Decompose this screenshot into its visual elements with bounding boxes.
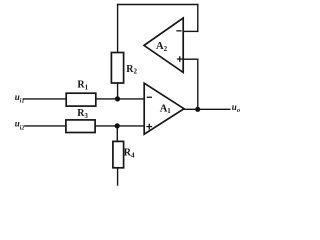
svg-text:i2: i2 (20, 124, 25, 131)
node A junction dot (u_i1 line) (115, 96, 120, 101)
op-amp A2 plus sign (177, 56, 183, 62)
wire R3 to A1 non-inverting input (95, 125, 144, 127)
wire A2 non-inverting input stub (183, 58, 198, 60)
wire A2 inverting input stub (183, 30, 198, 32)
resistor R1 body (66, 93, 96, 106)
resistor R3 body (66, 120, 95, 133)
wire left vertical from top corner down to R2 (117, 5, 119, 53)
op-amp A1 plus sign (146, 124, 152, 130)
node B junction dot (u_i2 line) (115, 123, 120, 128)
resistor R2 body (111, 53, 123, 84)
wire stub below R4 (117, 168, 119, 185)
op-amp A2 triangle (output points left) (144, 18, 183, 72)
wire R2 bottom lead to node A (117, 83, 119, 99)
wire node B down to R4 (116, 126, 118, 141)
svg-text:R1: R1 (77, 80, 88, 92)
wire A1 output to u_o (184, 108, 230, 110)
wire R1 to A1 inverting input (96, 98, 144, 100)
svg-text:R4: R4 (124, 148, 135, 160)
op-amp A2 minus sign (176, 30, 181, 31)
wire input u_i2 lead (25, 125, 66, 127)
node output junction dot (195, 107, 200, 112)
svg-text:A1: A1 (160, 103, 172, 115)
op-amp A1 minus sign (147, 97, 152, 98)
svg-text:i1: i1 (20, 97, 25, 104)
wire input u_i1 lead (24, 98, 67, 100)
svg-text:R2: R2 (126, 64, 137, 76)
resistor R4 body (113, 141, 124, 167)
wire top feedback horizontal (118, 4, 198, 6)
wire right vertical from top to A2 inverting input (197, 5, 199, 32)
svg-text:A2: A2 (156, 41, 168, 53)
svg-text:R3: R3 (77, 108, 88, 120)
svg-text:o: o (237, 107, 240, 114)
op-amp A1 triangle (output points right) (144, 83, 184, 134)
wire vertical from A2 non-inverting input down to output node (197, 59, 199, 109)
